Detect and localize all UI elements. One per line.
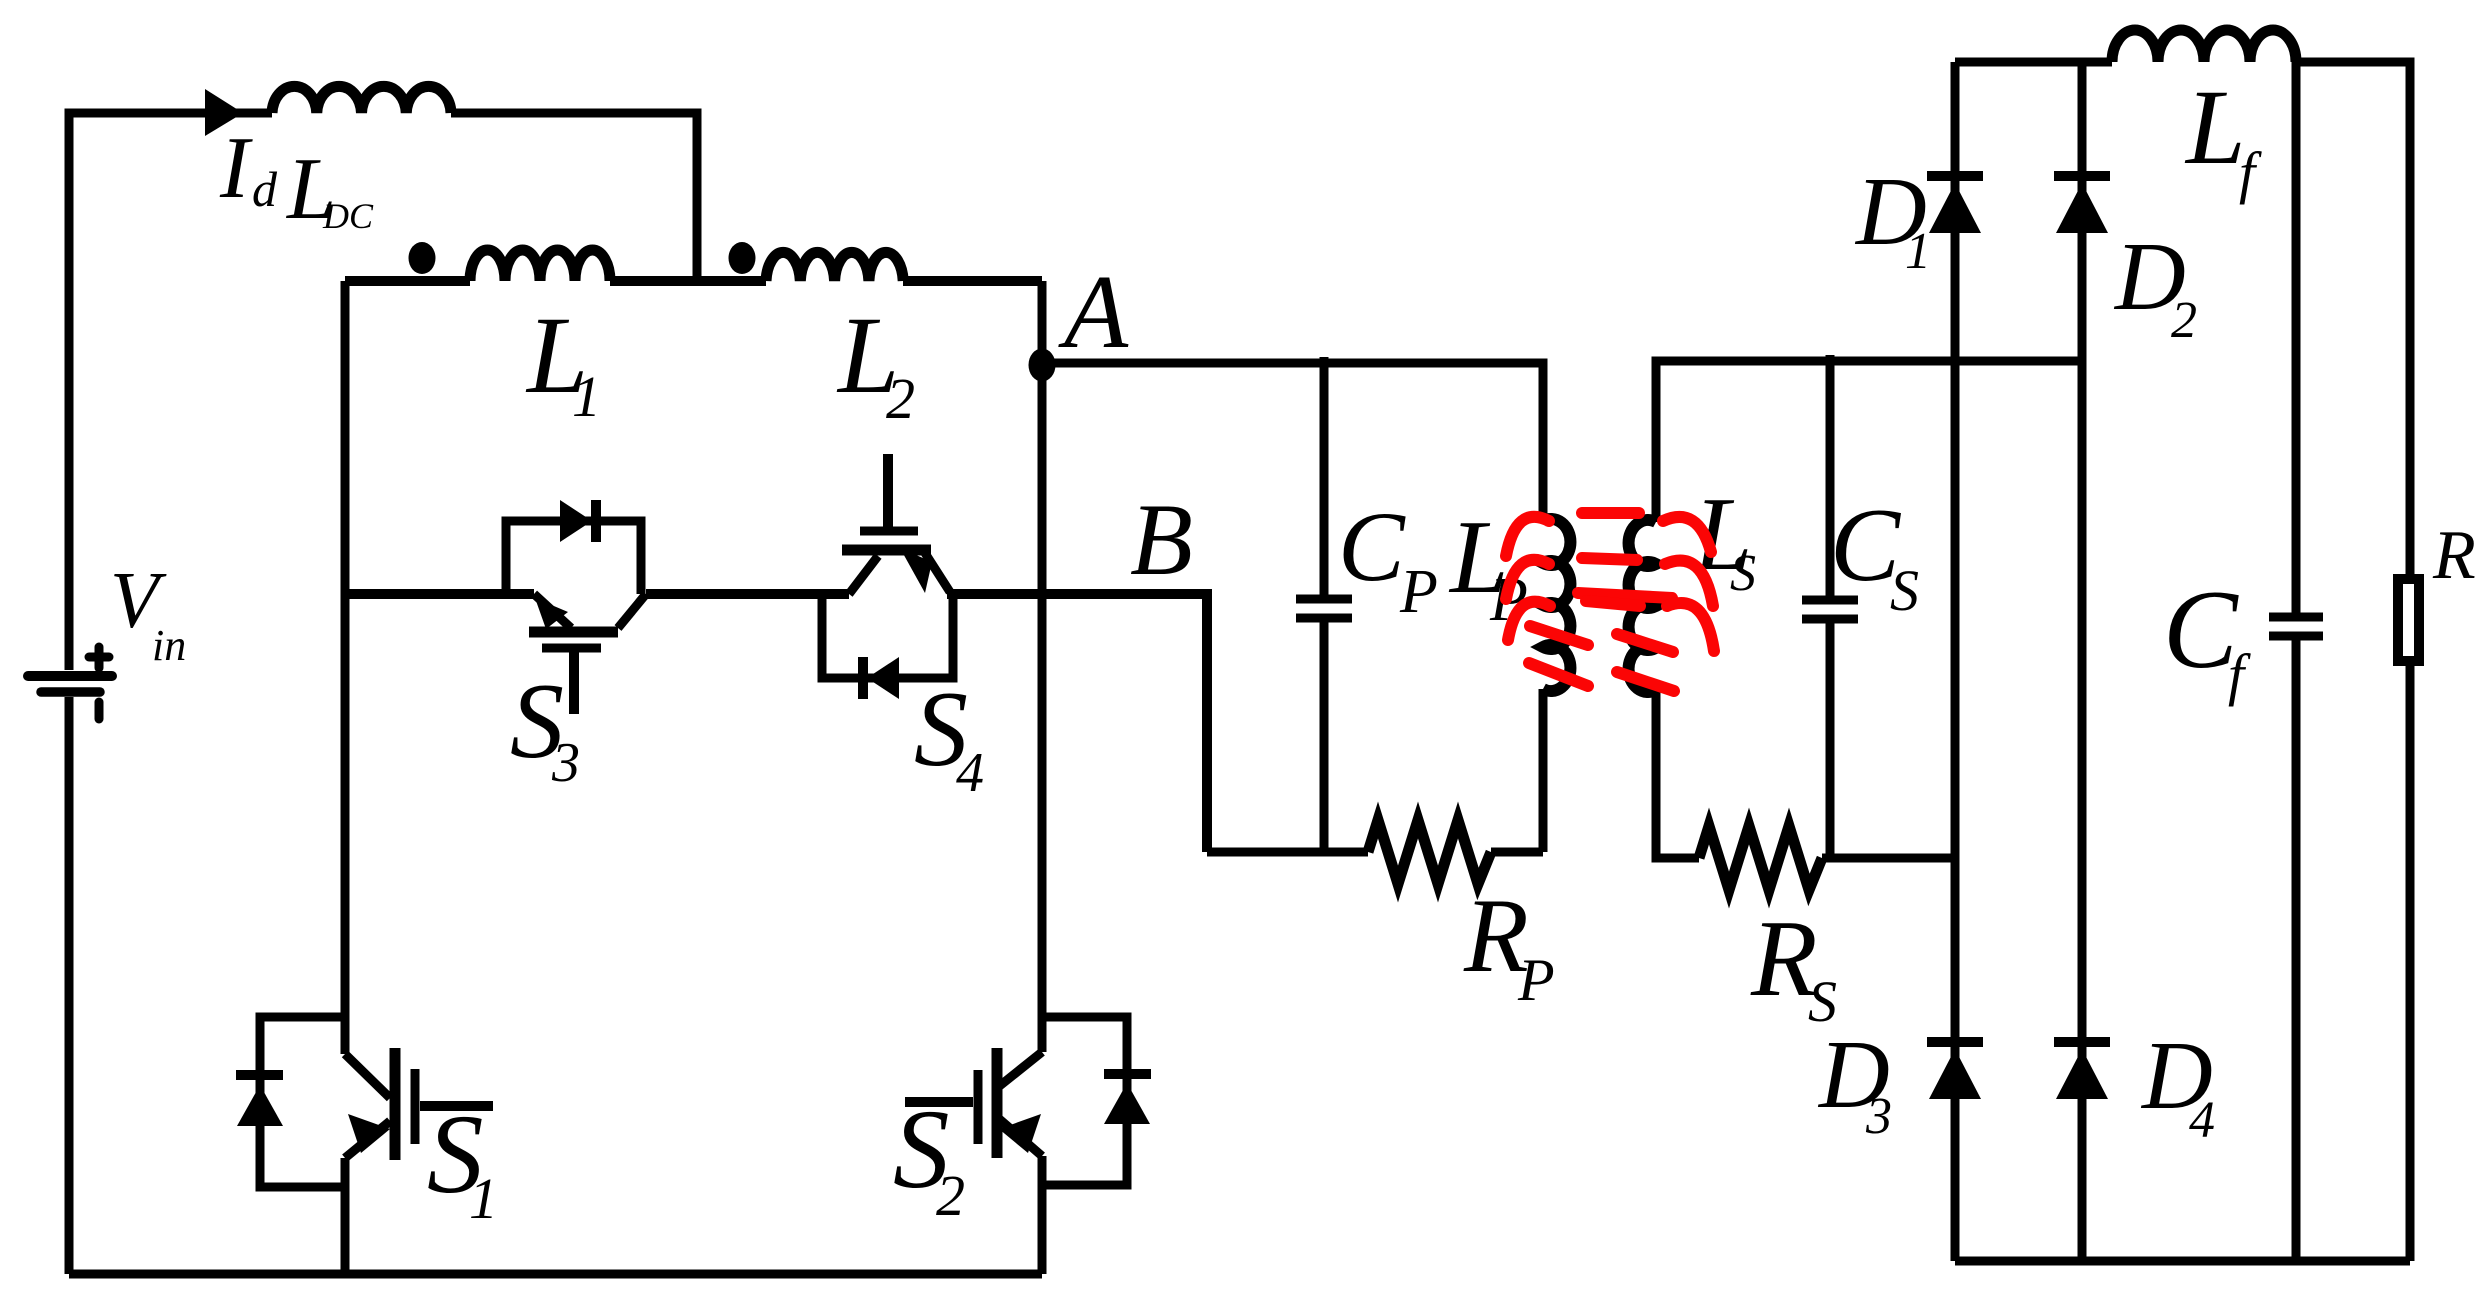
wire: S1 emitter to rail [341,1158,350,1274]
switch S3 (IGBT with antiparallel diode) [506,500,646,714]
resistor RS [1699,826,1822,890]
svg-text:P: P [1517,947,1555,1013]
svg-text:DC: DC [322,196,374,236]
transformer coil LS [1629,520,1656,692]
dot: L2 phase dot [729,242,756,274]
svg-text:in: in [152,621,186,670]
battery Vin [28,647,112,719]
diode D1 [1927,171,1983,181]
wire: B wire left of S3 [345,589,534,599]
wire: top after LDC down to L1 row [451,113,697,281]
diode D3 [1927,1037,1983,1047]
wire: Lf to load R [2296,62,2410,576]
dot: L1 phase dot [409,242,436,274]
svg-text:2: 2 [936,1163,965,1228]
wire: S2 emitter to rail [1038,1156,1047,1274]
wire: LS bottom to RS [1656,690,1699,858]
diode D2 [2054,171,2110,181]
svg-text:1: 1 [572,364,601,429]
wire: input left bottom [65,697,74,1274]
arrow: input current direction Id [205,89,243,136]
wire: B wire between S3 and S4 [646,589,849,599]
inductor L1 [470,250,610,281]
wire: input left top [69,113,272,670]
wire: load R bottom [2406,664,2415,1261]
wire: right bridge leg [1038,281,1047,1052]
inductor LDC [272,86,451,113]
switch S1 (IGBT with antiparallel diode) [236,1017,493,1187]
svg-text:P: P [1399,558,1438,626]
wire: primary bottom rail (main) [69,1270,1042,1279]
transformer coupling flux (red dashed arcs) [1506,513,1714,691]
wire: B wire right of S4 down to rail [947,594,1207,852]
inductor Lf [2112,30,2296,62]
wire: D1 D3 vertical line [1951,62,1960,1261]
diode D4 [2054,1037,2110,1047]
svg-text:R: R [2432,517,2476,594]
wire: LP bottom to rail [1539,689,1548,852]
switch S2 (IGBT with antiparallel diode) [905,1017,1151,1185]
wire: L1 row baseline left [345,276,470,286]
svg-text:S: S [1890,558,1919,623]
svg-text:d: d [252,161,278,217]
svg-text:2: 2 [886,366,915,431]
svg-text:2: 2 [2171,292,2197,349]
resistor RP [1368,820,1491,884]
svg-text:1: 1 [1905,223,1931,280]
wire: rectifier top rail to Lf [1955,58,2112,67]
wire: RS right stub to D1 line [1822,854,1955,863]
transformer coil LP [1543,519,1570,691]
svg-text:C: C [1338,491,1406,602]
node A junction dot [1029,349,1056,382]
capacitor CP [1296,357,1352,852]
svg-text:3: 3 [551,732,580,794]
capacitor Cf [2269,62,2323,1261]
svg-text:B: B [1130,483,1193,597]
svg-text:1: 1 [469,1166,498,1231]
wire: after L2 to right leg [903,276,1042,286]
wire: D2 D4 vertical line [2078,62,2087,1261]
wire: left bridge leg upper [341,281,350,1054]
wire: LS top to D2 line [1656,361,2082,522]
wire: node A to LP top [1042,363,1543,521]
switch S4 (IGBT with antiparallel diode) [822,454,953,699]
svg-text:4: 4 [2189,1092,2215,1149]
wire: between L1 and L2 [610,276,766,286]
wire: primary bottom rail right of RP [1491,848,1543,857]
inductor L2 [766,252,903,281]
svg-text:L: L [2184,69,2246,187]
resistor R load [2398,579,2419,661]
svg-text:3: 3 [1865,1088,1892,1145]
wire: primary bottom rail left of RP [1207,848,1368,857]
wire: secondary bottom rail [1955,1257,2410,1266]
capacitor CS [1802,355,1858,858]
svg-text:4: 4 [956,742,984,804]
svg-text:A: A [1058,253,1129,370]
svg-text:I: I [219,120,253,217]
svg-text:S: S [1730,545,1756,602]
